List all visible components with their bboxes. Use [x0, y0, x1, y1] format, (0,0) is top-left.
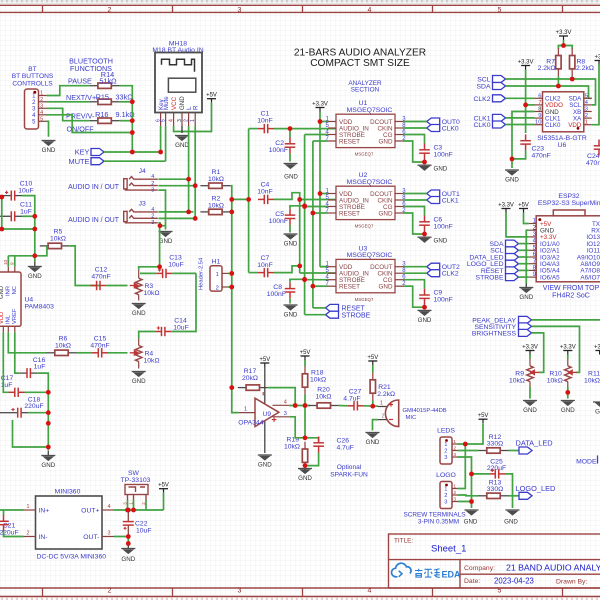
wire C27 to mic [364, 405, 378, 407]
wire C2 top [289, 129, 291, 138]
MINI360 IN- stub [24, 536, 36, 538]
junction bus x48 upper [46, 421, 51, 426]
wire mix to C4 node [232, 198, 249, 200]
wire BT pin5 to GND [47, 121, 49, 136]
junction STROBE U3 [302, 277, 307, 282]
wire +5V to rail [163, 493, 165, 510]
svg-text:51kΩ: 51kΩ [99, 77, 117, 86]
svg-text:R6: R6 [59, 336, 68, 343]
wire +3.3V to R10 [567, 355, 569, 360]
wire +3.3V to pin3 [506, 213, 529, 237]
junction KEY/bus [130, 150, 135, 155]
wire R6 to C15 [77, 352, 93, 354]
svg-text:CLK0: CLK0 [442, 125, 459, 132]
wire RESET flag [313, 307, 326, 309]
wire CG to C3 [403, 135, 425, 144]
junction riser U2 [297, 197, 302, 202]
svg-text:COMPACT SMT SIZE: COMPACT SMT SIZE [310, 58, 410, 69]
junction bus row256 GND tap [32, 253, 37, 258]
svg-text:LEDS: LEDS [437, 428, 455, 435]
junction R7/R8 split [561, 43, 566, 48]
svg-text:C9: C9 [434, 290, 443, 297]
svg-text:GND: GND [504, 519, 518, 526]
junction H1 pin1 [229, 271, 234, 276]
svg-text:10nF: 10nF [257, 117, 273, 124]
op-amp pin 1 stub [239, 412, 255, 414]
wire R18 down [304, 395, 306, 438]
svg-text:GND: GND [28, 273, 42, 280]
wire RESET bus [312, 141, 314, 308]
wire RESET tap [313, 140, 328, 142]
svg-text:10nF: 10nF [257, 262, 273, 269]
junction C11/bus [32, 214, 37, 219]
svg-text:2: 2 [108, 588, 112, 595]
wire OUT+ rail [114, 509, 164, 511]
svg-text:R: R [192, 105, 199, 110]
svg-text:R20: R20 [317, 386, 330, 393]
svg-text:10kΩ: 10kΩ [547, 377, 563, 384]
svg-text:1: 1 [244, 407, 247, 413]
wire R17 right to inv input [268, 388, 295, 406]
wire CLK2 to U6 [506, 97, 535, 99]
svg-text:SDA: SDA [477, 84, 491, 91]
svg-text:U6: U6 [558, 142, 567, 149]
svg-text:C23: C23 [532, 145, 545, 152]
svg-text:3: 3 [453, 452, 456, 458]
wire U4 pin to C17 [3, 332, 8, 392]
wire CG to C6 [403, 207, 425, 216]
wire LOGO pin2 to R13 [458, 494, 479, 497]
wire R16 to bus [120, 120, 133, 122]
svg-text:MUTE: MUTE [69, 157, 90, 166]
junction J3/J4 sleeve [158, 223, 163, 228]
svg-text:CLK2: CLK2 [442, 271, 459, 278]
svg-text:C7: C7 [261, 255, 270, 262]
wire to R7 [558, 46, 563, 50]
svg-text:G: G [595, 409, 600, 416]
op-amp pin 3 stub [273, 416, 290, 418]
svg-text:CLK1: CLK1 [442, 197, 459, 204]
wire OUT- to gnd node [114, 536, 128, 538]
ground below C3 [418, 165, 432, 170]
svg-text:2: 2 [444, 449, 447, 455]
wire C1 left [249, 128, 258, 130]
wire GND pin down [403, 213, 425, 234]
junction C6/GND [422, 232, 427, 237]
net flag OUT2 [427, 263, 440, 270]
resistor R20 [309, 403, 339, 408]
svg-text:3: 3 [444, 455, 447, 461]
svg-text:R15: R15 [96, 92, 109, 101]
svg-text:TP-33103: TP-33103 [121, 477, 151, 484]
junction C3/GND [422, 160, 427, 165]
svg-text:MSGEQ7SOIC: MSGEQ7SOIC [347, 107, 393, 114]
svg-text:R5: R5 [54, 229, 63, 236]
ground below C9 [418, 310, 432, 315]
wire DCOUT to OUT0 [403, 121, 427, 123]
svg-text:C26: C26 [337, 437, 350, 444]
wire MUTE row [104, 160, 166, 162]
svg-text:9: 9 [538, 113, 541, 119]
junction SW pin1 [131, 508, 136, 513]
svg-text:4: 4 [108, 504, 111, 510]
svg-text:+5V: +5V [300, 350, 311, 356]
MINI360 IN+ stub [24, 509, 36, 511]
svg-text:+3.3V: +3.3V [498, 202, 514, 208]
svg-text:C3: C3 [434, 144, 443, 151]
svg-text:STROBE: STROBE [476, 275, 504, 282]
junction R17/output [229, 385, 234, 390]
svg-text:R17: R17 [244, 368, 257, 375]
wire SDA flag to pin [519, 243, 529, 245]
svg-text:INL: INL [5, 314, 11, 324]
wire C4 right jog to audio riser [274, 193, 300, 273]
junction left edge [0, 195, 4, 200]
resistor R5 [40, 243, 70, 248]
wire Mute pin down [165, 126, 167, 161]
svg-text:C24: C24 [587, 153, 600, 160]
svg-text:C15: C15 [94, 336, 107, 343]
svg-text:+3.3V: +3.3V [522, 344, 538, 350]
wire STROBE tap [305, 279, 328, 281]
wire +3.3V to VDDO/C23 [525, 70, 527, 134]
wire mic pin2 to GND [373, 420, 379, 431]
junction mix node [246, 197, 251, 202]
wire C6 bottom [424, 232, 426, 235]
R4 top lead [138, 339, 140, 346]
svg-text:R16: R16 [95, 110, 108, 119]
svg-text:1: 1 [453, 439, 456, 445]
resistor R17 [238, 385, 268, 390]
svg-text:3: 3 [585, 107, 588, 113]
ground ESP32 [519, 284, 533, 293]
wire sleeve to GND [160, 226, 166, 230]
wire R8 to SCL row [571, 76, 573, 79]
wire C8 top jog [290, 279, 305, 282]
wire CLK0 to U6 [506, 124, 535, 126]
svg-text:10kΩ: 10kΩ [584, 377, 600, 384]
wire GND pin down [403, 141, 425, 162]
junction C17/bus [46, 390, 51, 395]
wire LOGO_LED flag to pin [519, 263, 529, 265]
wire STROBE tap [305, 134, 328, 136]
svg-text:AUDIO IN / OUT: AUDIO IN / OUT [68, 217, 120, 224]
svg-text:10kΩ: 10kΩ [208, 176, 224, 183]
wire +3.3V to R9 [529, 355, 531, 360]
wire output feedback [232, 388, 239, 413]
svg-text:R9: R9 [515, 370, 524, 377]
svg-text:GND: GND [366, 439, 380, 446]
svg-text:5: 5 [585, 93, 588, 99]
wire C12 to R3 wiper [106, 285, 127, 287]
wire +5V to R21 [372, 365, 374, 373]
svg-text:Sheet_1: Sheet_1 [431, 544, 466, 555]
svg-text:+3.3V: +3.3V [560, 344, 576, 350]
wire H1 pin1 to audio line [228, 272, 232, 274]
svg-text:10kΩ: 10kΩ [144, 290, 160, 297]
svg-text:4: 4 [284, 399, 287, 405]
svg-text:OUT+: OUT+ [81, 508, 99, 515]
svg-text:LOGO_LED: LOGO_LED [516, 484, 556, 493]
net flag CLK1 [427, 197, 440, 204]
svg-text:MINI360: MINI360 [55, 489, 81, 496]
junction L/J4 [186, 177, 191, 182]
junction rail/C22 [126, 508, 131, 513]
svg-text:GND: GND [41, 462, 55, 469]
wire STROBE bus [304, 135, 306, 315]
junction R18/row [303, 403, 308, 408]
ground BT pin5 [42, 141, 56, 146]
svg-text:PAM8403: PAM8403 [25, 304, 55, 311]
wire U4 out to R6 [8, 332, 46, 353]
svg-text:Mute: Mute [163, 96, 170, 110]
svg-text:VCC: VCC [171, 96, 178, 110]
wire Key pin down [160, 126, 162, 152]
svg-text:MSGEQ7SOIC: MSGEQ7SOIC [347, 179, 393, 186]
wire R21 down [372, 401, 374, 407]
svg-text:470nF: 470nF [586, 160, 600, 167]
wire audio riser to U3 AUDIO_IN [300, 272, 336, 274]
R4 bottom lead [138, 362, 140, 369]
svg-text:3: 3 [238, 7, 242, 14]
wire R5 right to C12 [70, 246, 101, 286]
svg-text:21 BAND AUDIO ANALYZER: 21 BAND AUDIO ANALYZER [506, 562, 600, 572]
junction L/J3 [186, 210, 191, 215]
svg-text:U9: U9 [263, 411, 272, 418]
wire to LOGO pin3 [458, 474, 472, 502]
wire +5V to LEDS pin1 [458, 423, 484, 444]
wire KEY row [104, 151, 161, 153]
junction STROBE U2 [302, 204, 307, 209]
microphone MIC1 GMI4015P-44DB [385, 400, 398, 427]
resistor R15 [90, 99, 120, 104]
wire J4 tip row [158, 178, 188, 180]
svg-text:FH4R2 SoC: FH4R2 SoC [552, 292, 590, 299]
svg-text:20kΩ: 20kΩ [242, 375, 258, 382]
svg-text:GND: GND [132, 310, 146, 317]
wire RESET tap [313, 285, 328, 287]
wire BT pin1 to R14 [47, 86, 90, 96]
svg-text:1: 1 [40, 91, 43, 97]
svg-text:+5V: +5V [478, 413, 489, 419]
svg-text:Date:: Date: [464, 578, 480, 585]
wire R14 to bus x132 [120, 86, 133, 152]
wire J3 ring row [158, 217, 195, 219]
svg-text:OUT-: OUT- [83, 534, 99, 541]
wire C13 right [172, 272, 196, 274]
junction KEY/Key pin [158, 150, 163, 155]
wire audio mix vertical x232 [230, 186, 231, 388]
svg-text:BRIGHTNESS: BRIGHTNESS [472, 331, 517, 338]
connector BT (BT BUTTONS CONTROLLS) [25, 89, 39, 129]
resistor R14 [90, 83, 120, 88]
svg-text:C4: C4 [261, 181, 270, 188]
wire C17 right [25, 391, 49, 393]
ground C25 [506, 510, 520, 515]
U4 top pin stub b [14, 267, 16, 272]
svg-text:MODE: MODE [576, 458, 597, 465]
svg-text:10kΩ: 10kΩ [509, 377, 525, 384]
svg-text:10uF: 10uF [18, 187, 34, 194]
svg-text:DC-DC 5V/3A MINI360: DC-DC 5V/3A MINI360 [37, 554, 107, 561]
wire BRIGHTNESS to R9 [532, 333, 544, 373]
wire C5 bottom [289, 225, 291, 233]
ground C22 [121, 545, 135, 554]
wire PEAK_DELAY right [532, 319, 600, 321]
wire U6 GND down [512, 112, 535, 169]
wire +3.3V to VDD [592, 65, 599, 125]
svg-text:100nF: 100nF [434, 223, 453, 230]
svg-text:MSGEQ7: MSGEQ7 [355, 297, 374, 302]
svg-text:3: 3 [284, 411, 287, 417]
junction SW pin3 [125, 508, 130, 513]
svg-text:1: 1 [216, 272, 219, 278]
svg-text:OPA344: OPA344 [238, 419, 263, 426]
wire C23 bottom [512, 150, 526, 159]
junction R7/SDA [556, 84, 561, 89]
U4 bottom pin stub 3 [14, 326, 16, 332]
svg-text:2: 2 [444, 493, 447, 499]
svg-text:GND: GND [159, 238, 173, 245]
svg-text:SCL: SCL [477, 77, 490, 84]
svg-text:470nF: 470nF [91, 273, 110, 280]
ground mic [366, 433, 380, 438]
jlc eda logo CJK glyph marks [415, 569, 440, 578]
wire RESET tap [313, 212, 328, 214]
svg-text:10kΩ: 10kΩ [144, 358, 160, 365]
svg-text:GND: GND [464, 519, 478, 526]
junction C8/strobe bus [302, 277, 307, 282]
connector J4 audio jack [124, 177, 158, 191]
svg-text:4: 4 [151, 174, 154, 180]
wire mix node vertical [248, 129, 250, 273]
wire BT pin2 to R15 [47, 101, 90, 103]
svg-text:R10: R10 [549, 370, 562, 377]
svg-text:1uF: 1uF [1, 382, 13, 389]
wire VDD tap [320, 193, 328, 195]
wire R19 bottom [304, 466, 306, 470]
svg-text:AUDIO IN / OUT: AUDIO IN / OUT [68, 184, 120, 191]
svg-text:ESP32-S3 SuperMini: ESP32-S3 SuperMini [538, 200, 600, 207]
wire C21 top [3, 510, 5, 515]
wire VCC to +5V [174, 103, 212, 132]
svg-text:Company:: Company: [464, 565, 495, 572]
svg-text:1: 1 [444, 487, 447, 493]
svg-text:2023-04-23: 2023-04-23 [494, 576, 534, 585]
wire C15 to R4 wiper [108, 352, 128, 354]
svg-text:4.7uF: 4.7uF [337, 444, 354, 451]
svg-text:Drawn By:: Drawn By: [556, 578, 587, 585]
svg-text:MSGEQ7SOIC: MSGEQ7SOIC [347, 252, 393, 259]
ground C5 [284, 234, 298, 239]
svg-text:SPARK-FUN: SPARK-FUN [330, 472, 368, 479]
ground bus x48 [41, 451, 55, 461]
wire STROBE flag to pin [519, 276, 529, 278]
svg-text:10uF: 10uF [173, 324, 189, 331]
wire +3.3V down [563, 40, 565, 46]
MINI360 OUT- stub [102, 536, 114, 538]
junction H1 pin2 [229, 285, 234, 290]
svg-text:1: 1 [444, 442, 447, 448]
wire SW pin3 drop [127, 500, 129, 510]
IC U6 SI5351A-B-GTR [543, 92, 584, 132]
junction C5/strobe bus [302, 203, 307, 208]
wire C11 right [22, 215, 35, 217]
svg-text:8: 8 [538, 107, 541, 113]
wire to R8 [564, 46, 573, 50]
svg-text:GND: GND [519, 294, 533, 301]
capacitor C26 [313, 437, 324, 453]
svg-text:C13: C13 [169, 255, 182, 262]
svg-text:INR: INR [5, 286, 11, 296]
svg-text:GND: GND [0, 286, 5, 299]
svg-text:3: 3 [40, 104, 43, 110]
svg-text:C1: C1 [261, 110, 270, 117]
wire J3 tip row to R2 [158, 211, 193, 213]
svg-text:C21: C21 [3, 522, 16, 529]
svg-text:BT BUTTONS: BT BUTTONS [12, 73, 54, 80]
svg-text:TITLE:: TITLE: [394, 538, 413, 545]
svg-text:GND: GND [434, 166, 448, 173]
wire to gnd stem [127, 537, 129, 544]
wire R2 out [230, 211, 231, 213]
junction R15/bus [130, 99, 135, 104]
wire STROBE tap [305, 206, 328, 208]
IC U4 PAM8403 [0, 272, 21, 326]
svg-text:R4: R4 [145, 351, 154, 358]
ground R19/C26 [298, 469, 312, 474]
svg-text:3: 3 [108, 531, 111, 537]
junction C23/GND [510, 157, 515, 162]
svg-text:GND: GND [505, 177, 519, 184]
svg-text:GND: GND [284, 241, 298, 248]
wire inv input row [289, 405, 310, 407]
svg-text:220uF: 220uF [487, 465, 506, 472]
svg-text:5: 5 [40, 117, 43, 123]
svg-text:GND: GND [42, 147, 56, 154]
wire R13 to flag [509, 495, 520, 497]
net flag CLK2 [427, 270, 440, 277]
resistor R16 [90, 118, 120, 123]
ground U6 [505, 170, 519, 175]
junction C9/GND [422, 305, 427, 310]
jlc eda logo [392, 563, 411, 577]
resistor R8 [570, 48, 575, 76]
svg-text:Header-2.54: Header-2.54 [199, 257, 205, 290]
sheet frame top band [0, 0, 600, 2]
svg-text:10uF: 10uF [136, 527, 152, 534]
svg-text:4.7uF: 4.7uF [343, 395, 360, 402]
svg-text:2: 2 [40, 97, 43, 103]
junction inv input [293, 403, 298, 408]
svg-text:DATA_LED: DATA_LED [516, 438, 553, 447]
svg-text:GND: GND [379, 210, 393, 217]
svg-text:C6: C6 [434, 216, 443, 223]
junction R16/bus [130, 118, 135, 123]
junction LED pin1 riser [463, 442, 468, 447]
junction ON-OFF/bus [130, 130, 135, 135]
svg-text:330Ω: 330Ω [487, 440, 503, 447]
wire C21 bottom to IN- [4, 531, 24, 537]
svg-text:A6/IO7: A6/IO7 [580, 274, 600, 281]
ground R3 [132, 304, 146, 309]
ground R9 [523, 401, 537, 406]
junction R/J3 row2 [193, 216, 198, 221]
junction R/R1 row [193, 183, 198, 188]
wire MH18 GND stub [181, 126, 183, 133]
svg-text:C8: C8 [273, 284, 282, 291]
junction R3 top [157, 264, 162, 269]
